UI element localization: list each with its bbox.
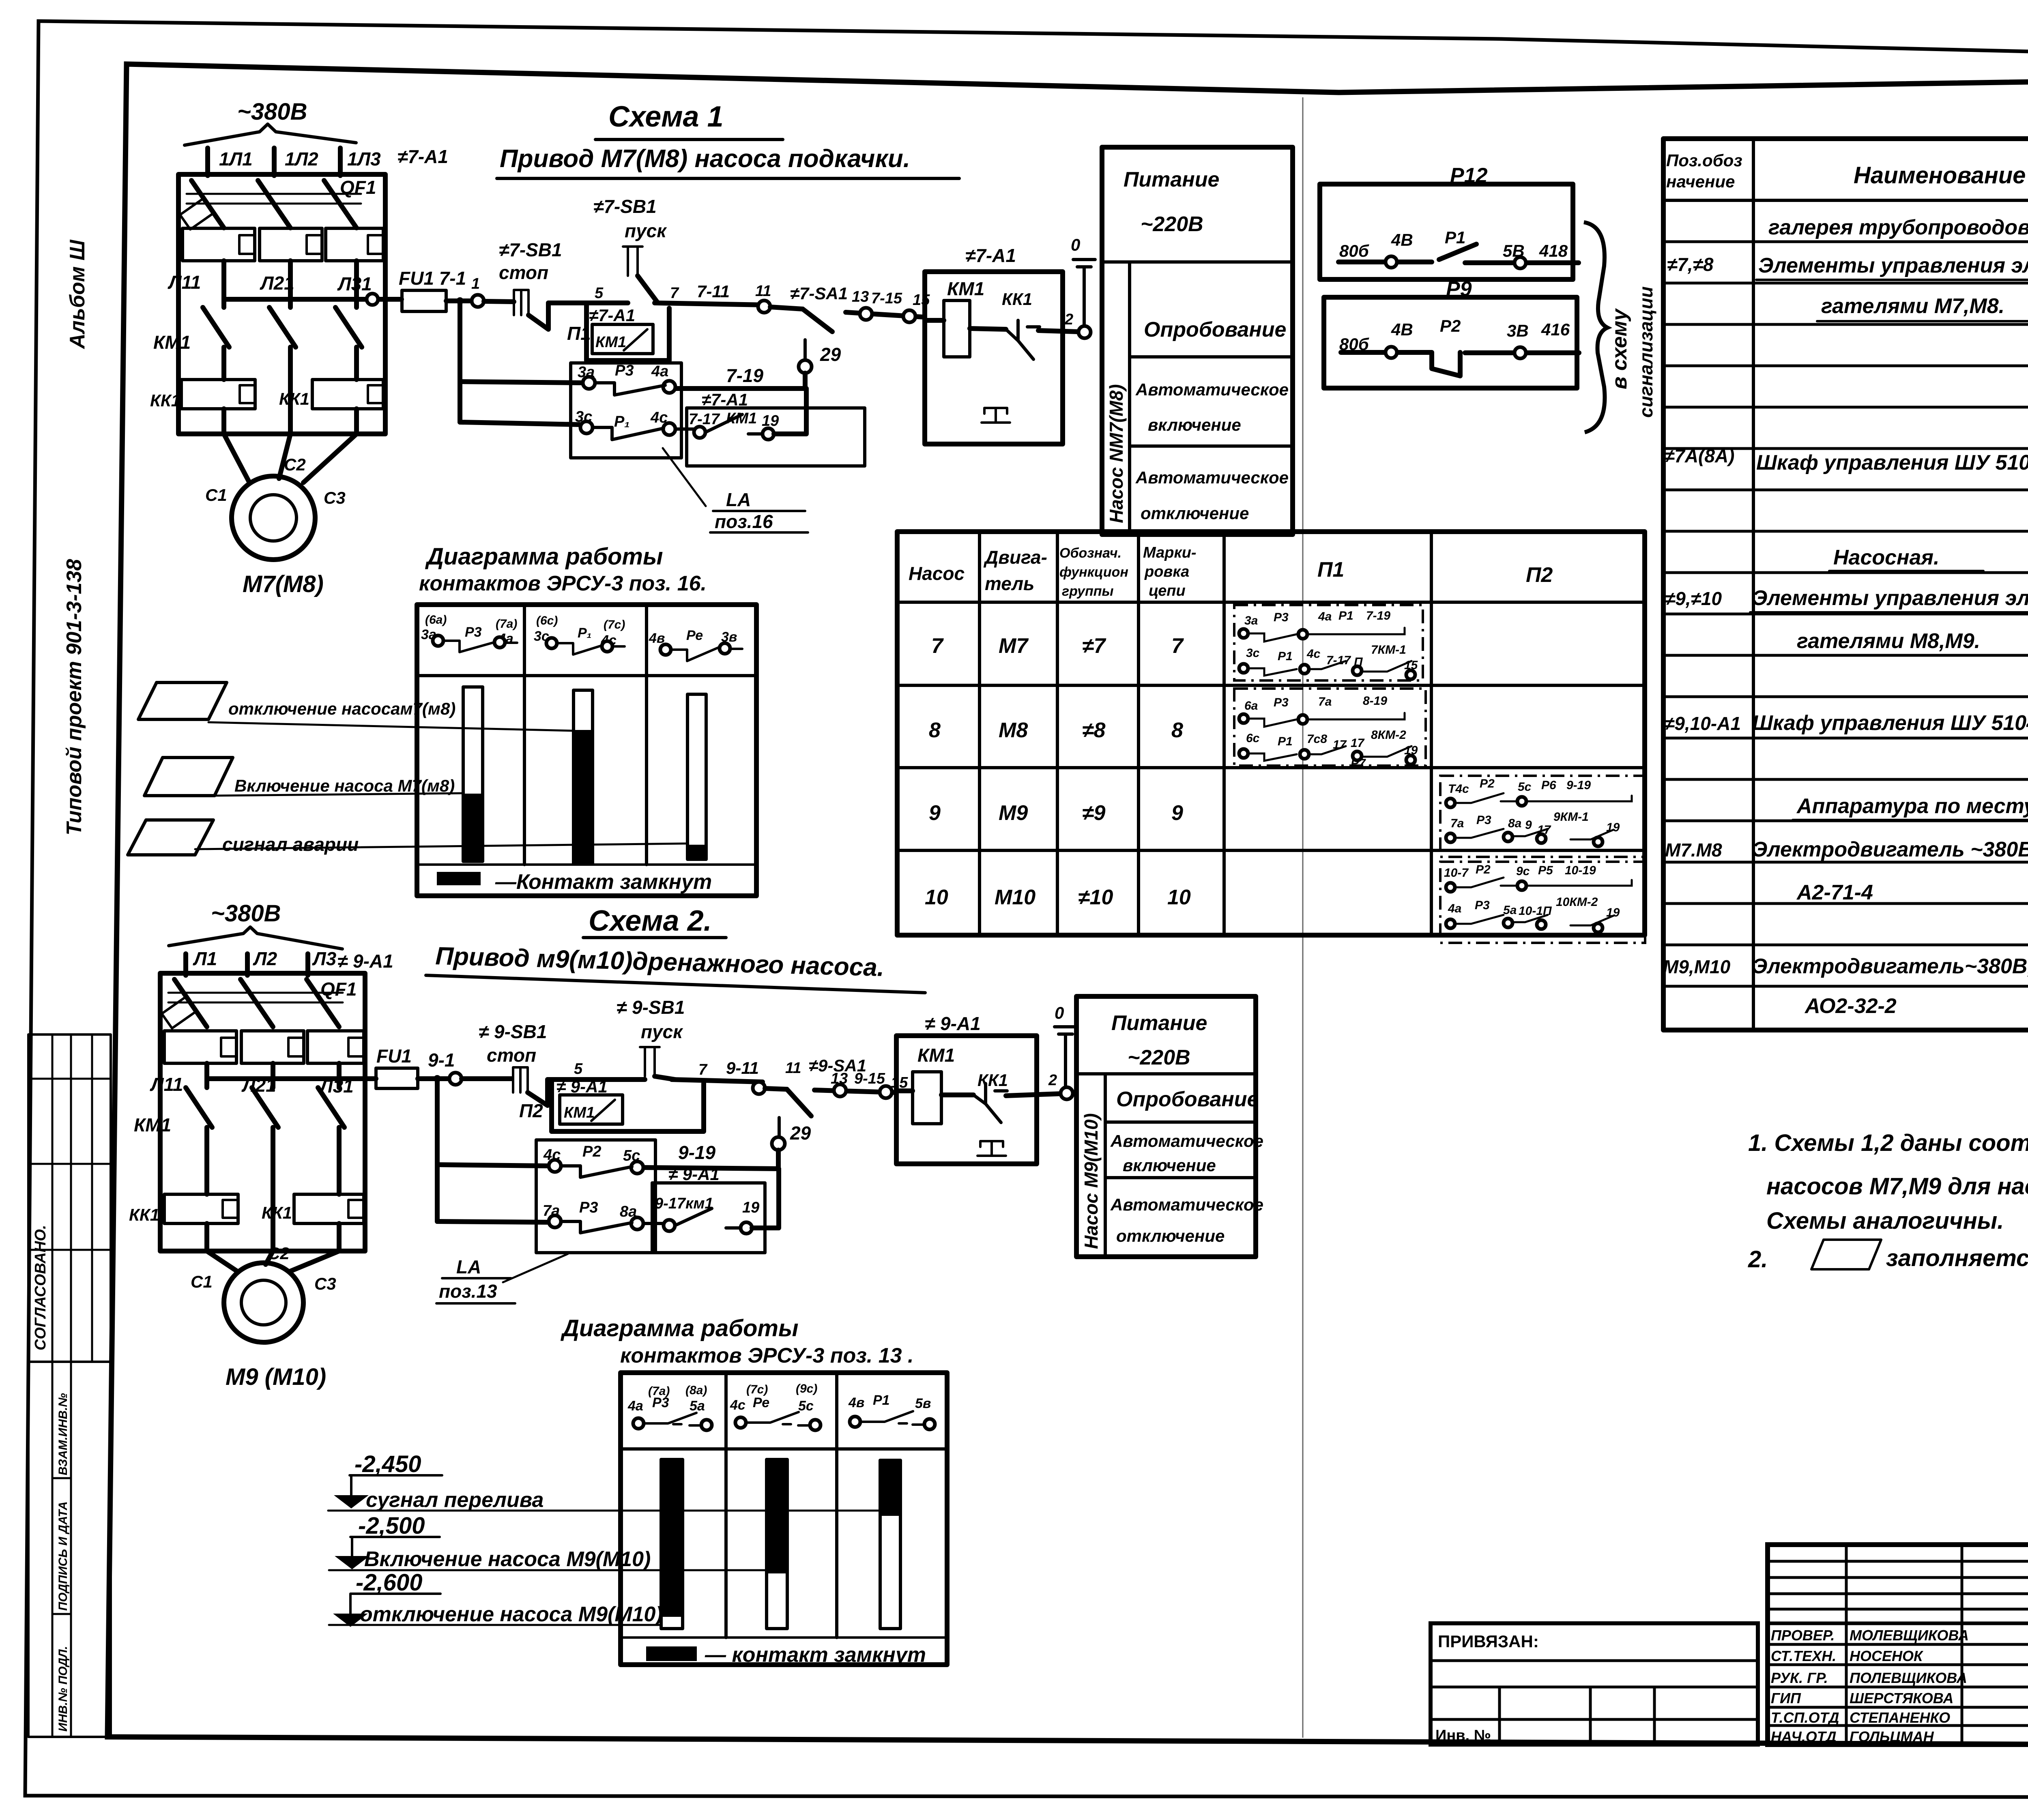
svg-text:9-1: 9-1 — [428, 1050, 455, 1071]
svg-text:Наименование: Наименование — [1854, 162, 2026, 189]
svg-text:≠7: ≠7 — [1082, 634, 1106, 658]
svg-text:—Контакт замкнут: —Контакт замкнут — [495, 870, 712, 894]
svg-text:7-17: 7-17 — [689, 411, 720, 428]
svg-text:~380В: ~380В — [237, 99, 307, 125]
svg-text:Т.СП.ОТД: Т.СП.ОТД — [1771, 1709, 1839, 1726]
svg-text:≠ 9-А1: ≠ 9-А1 — [668, 1165, 720, 1184]
svg-text:КК1: КК1 — [129, 1205, 159, 1224]
svg-text:пуск: пуск — [625, 220, 667, 241]
svg-text:9: 9 — [1171, 801, 1183, 825]
svg-text:С2: С2 — [284, 455, 306, 474]
svg-text:Р3: Р3 — [652, 1395, 669, 1410]
svg-text:начение: начение — [1666, 172, 1735, 191]
svg-text:Р1: Р1 — [1278, 735, 1293, 748]
svg-text:≠8: ≠8 — [1082, 719, 1106, 742]
svg-text:Шкаф управления ШУ 5104-03В 2к: Шкаф управления ШУ 5104-03В 2к — [1752, 711, 2028, 735]
svg-text:Р1: Р1 — [1445, 228, 1465, 247]
svg-text:контактов ЭРСУ-3 поз. 16.: контактов ЭРСУ-3 поз. 16. — [419, 572, 707, 595]
svg-text:416: 416 — [1541, 320, 1570, 339]
svg-text:Р1: Р1 — [1338, 609, 1353, 622]
svg-text:ШЕРСТЯКОВА: ШЕРСТЯКОВА — [1850, 1690, 1953, 1706]
svg-text:КК1: КК1 — [977, 1071, 1008, 1090]
svg-text:10-7: 10-7 — [1444, 866, 1469, 880]
svg-text:Включение насоса М9(М10): Включение насоса М9(М10) — [364, 1547, 651, 1571]
svg-text:пуск: пуск — [641, 1021, 683, 1042]
svg-text:9: 9 — [929, 801, 941, 825]
svg-text:Р2: Р2 — [582, 1143, 601, 1160]
svg-text:9: 9 — [1525, 818, 1532, 832]
svg-text:80б: 80б — [1339, 241, 1369, 260]
svg-text:функцион: функцион — [1059, 564, 1128, 580]
svg-text:5с: 5с — [623, 1147, 640, 1164]
svg-text:ГИП: ГИП — [1771, 1690, 1801, 1706]
svg-text:включение: включение — [1148, 415, 1241, 434]
svg-text:Автоматическое: Автоматическое — [1135, 380, 1289, 399]
svg-text:29: 29 — [820, 344, 841, 365]
svg-text:7: 7 — [670, 285, 679, 302]
svg-text:контактов ЭРСУ-3 поз. 13 .: контактов ЭРСУ-3 поз. 13 . — [620, 1344, 913, 1367]
svg-text:≠ 9-А1: ≠ 9-А1 — [337, 951, 393, 972]
svg-text:Шкаф управления ШУ 5102-23в 2А: Шкаф управления ШУ 5102-23в 2А — [1756, 451, 2028, 474]
svg-text:(7с): (7с) — [746, 1383, 768, 1396]
svg-text:29: 29 — [790, 1122, 811, 1144]
svg-text:8а: 8а — [1508, 817, 1521, 830]
svg-text:Автоматическое: Автоматическое — [1135, 468, 1289, 487]
svg-text:Р7: Р7 — [1351, 757, 1366, 770]
svg-text:сигнал аварии: сигнал аварии — [222, 834, 359, 855]
svg-text:М7(М8): М7(М8) — [243, 571, 324, 597]
svg-text:13: 13 — [852, 288, 869, 305]
svg-text:3с: 3с — [1246, 646, 1260, 660]
svg-text:0: 0 — [1055, 1003, 1064, 1022]
svg-text:5в: 5в — [915, 1396, 931, 1411]
svg-text:Л1: Л1 — [193, 948, 217, 969]
svg-text:Р6: Р6 — [1541, 779, 1556, 792]
svg-text:Марки-: Марки- — [1143, 544, 1197, 561]
svg-text:СТЕПАНЕНКО: СТЕПАНЕНКО — [1850, 1709, 1950, 1726]
svg-text:8КМ-2: 8КМ-2 — [1371, 728, 1406, 742]
svg-text:М8: М8 — [999, 719, 1028, 742]
svg-text:Р3: Р3 — [465, 625, 482, 640]
svg-text:9-19: 9-19 — [1566, 779, 1591, 792]
svg-text:Схемы аналогичны.: Схемы аналогичны. — [1766, 1208, 2004, 1234]
svg-text:П1: П1 — [1317, 558, 1344, 582]
svg-text:Электродвигатель ~380В, 22кВт: Электродвигатель ~380В, 22кВт — [1752, 838, 2028, 861]
svg-text:8-19: 8-19 — [1363, 694, 1387, 708]
svg-text:Опробование: Опробование — [1144, 318, 1286, 341]
svg-text:5а: 5а — [690, 1398, 705, 1414]
svg-text:4В: 4В — [1391, 230, 1413, 249]
svg-text:7КМ-1: 7КМ-1 — [1371, 643, 1406, 657]
svg-text:С1: С1 — [191, 1272, 213, 1291]
svg-text:8: 8 — [929, 719, 941, 742]
svg-text:ПОДПИСЬ И ДАТА: ПОДПИСЬ И ДАТА — [56, 1501, 70, 1611]
svg-text:П2: П2 — [519, 1100, 543, 1121]
svg-text:СОГЛАСОВАНО.: СОГЛАСОВАНО. — [32, 1225, 49, 1350]
svg-text:QF1: QF1 — [320, 979, 357, 1000]
svg-text:П1: П1 — [567, 323, 591, 344]
svg-text:Автоматическое: Автоматическое — [1110, 1195, 1263, 1214]
svg-text:Р2: Р2 — [1440, 316, 1461, 335]
svg-text:-2,450: -2,450 — [354, 1451, 421, 1477]
svg-text:4а: 4а — [651, 363, 668, 380]
svg-text:FU1 7-1: FU1 7-1 — [399, 268, 466, 289]
svg-text:≠9,≠10: ≠9,≠10 — [1665, 588, 1722, 609]
svg-text:≠7-SВ1: ≠7-SВ1 — [499, 239, 562, 260]
svg-text:Питание: Питание — [1124, 168, 1219, 191]
svg-text:≠7-А1: ≠7-А1 — [702, 390, 748, 409]
svg-text:5а: 5а — [1503, 904, 1517, 917]
svg-text:4с: 4с — [543, 1146, 561, 1163]
svg-text:КМ1: КМ1 — [917, 1045, 955, 1066]
svg-text:КК1: КК1 — [262, 1203, 292, 1222]
svg-text:7с8: 7с8 — [1307, 732, 1327, 746]
svg-text:НАЧ.ОТД: НАЧ.ОТД — [1771, 1728, 1837, 1745]
svg-text:7а: 7а — [1450, 817, 1464, 830]
svg-text:С3: С3 — [324, 488, 346, 507]
svg-text:Р3: Р3 — [1274, 696, 1289, 709]
svg-text:9-17км1: 9-17км1 — [655, 1195, 713, 1212]
svg-text:9-15: 9-15 — [854, 1070, 885, 1087]
svg-text:10КМ-2: 10КМ-2 — [1556, 895, 1598, 909]
svg-text:6с: 6с — [1246, 732, 1260, 745]
svg-text:Р1: Р1 — [873, 1393, 890, 1408]
svg-text:4в: 4в — [848, 1395, 864, 1410]
svg-text:4а: 4а — [627, 1398, 643, 1414]
svg-text:в схему: в схему — [1608, 308, 1631, 389]
svg-text:отключение: отключение — [1116, 1226, 1225, 1245]
svg-text:8а: 8а — [620, 1203, 637, 1220]
svg-text:7-19: 7-19 — [1366, 609, 1390, 622]
svg-text:Поз.обоз: Поз.обоз — [1666, 151, 1742, 170]
svg-text:3с: 3с — [575, 408, 592, 425]
svg-text:Р3: Р3 — [1475, 899, 1490, 912]
svg-text:2.: 2. — [1748, 1246, 1768, 1273]
svg-text:КМ1: КМ1 — [153, 332, 191, 353]
svg-text:КМ1: КМ1 — [564, 1104, 595, 1121]
svg-text:заполняется при привязке прое: заполняется при привязке проекта. — [1886, 1245, 2028, 1271]
svg-text:(7с): (7с) — [604, 618, 625, 631]
svg-text:НОСЕНОК: НОСЕНОК — [1850, 1648, 1924, 1664]
svg-text:поз.16: поз.16 — [715, 511, 773, 532]
svg-text:РУК. ГР.: РУК. ГР. — [1771, 1670, 1828, 1686]
svg-text:отключение насосам7(м8): отключение насосам7(м8) — [228, 699, 455, 718]
svg-text:сугнал перелива: сугнал перелива — [366, 1488, 544, 1512]
svg-text:~220В: ~220В — [1128, 1046, 1190, 1069]
svg-text:≠ 9-А1: ≠ 9-А1 — [556, 1077, 608, 1096]
svg-text:Обознач.: Обознач. — [1059, 545, 1121, 561]
svg-text:7а: 7а — [1318, 695, 1332, 708]
svg-text:≠7-SА1: ≠7-SА1 — [790, 284, 848, 303]
svg-text:М10: М10 — [995, 886, 1035, 909]
svg-text:Включение насоса М7(м8): Включение насоса М7(м8) — [234, 776, 455, 795]
svg-text:стоп: стоп — [487, 1045, 536, 1066]
svg-text:М9 (М10): М9 (М10) — [226, 1364, 326, 1390]
svg-text:418: 418 — [1539, 241, 1568, 260]
svg-text:17: 17 — [1351, 736, 1365, 750]
svg-text:Альбом Ш: Альбом Ш — [66, 239, 89, 350]
svg-text:ИНВ.№ ПОДЛ.: ИНВ.№ ПОДЛ. — [56, 1646, 70, 1732]
svg-text:6а: 6а — [1244, 699, 1258, 713]
svg-text:1: 1 — [471, 275, 480, 292]
svg-text:Типовой проект 901-3-138: Типовой проект 901-3-138 — [62, 559, 86, 835]
svg-text:ровка: ровка — [1144, 563, 1189, 580]
svg-text:включение: включение — [1123, 1156, 1216, 1175]
svg-text:Р3: Р3 — [579, 1199, 598, 1216]
svg-text:М7: М7 — [999, 634, 1029, 658]
svg-text:Р5: Р5 — [1538, 864, 1553, 877]
svg-text:стоп: стоп — [499, 262, 548, 283]
svg-text:КК1: КК1 — [1002, 290, 1032, 309]
svg-text:Схема 1: Схема 1 — [608, 101, 724, 133]
svg-text:1. Схемы 1,2 даны соответст: 1. Схемы 1,2 даны соответственно для — [1748, 1130, 2028, 1156]
svg-text:П2: П2 — [1526, 563, 1553, 587]
svg-text:Р3: Р3 — [1476, 813, 1491, 827]
svg-text:9КМ-1: 9КМ-1 — [1553, 810, 1589, 824]
svg-text:7-11: 7-11 — [697, 282, 730, 301]
svg-text:≠7-А1: ≠7-А1 — [965, 245, 1016, 266]
svg-text:~220В: ~220В — [1141, 212, 1203, 236]
svg-text:-2,500: -2,500 — [358, 1513, 425, 1539]
svg-text:ПРИВЯЗАН:: ПРИВЯЗАН: — [1438, 1632, 1539, 1651]
svg-text:Насос: Насос — [909, 563, 965, 584]
svg-text:КМ1: КМ1 — [595, 334, 626, 351]
svg-text:Элементы управления электродви: Элементы управления электродви- — [1752, 586, 2028, 610]
svg-text:С2: С2 — [268, 1244, 290, 1263]
svg-text:Привод М7(М8) насоса подкачки.: Привод М7(М8) насоса подкачки. — [500, 145, 910, 173]
svg-text:5: 5 — [595, 285, 604, 302]
svg-text:-2,600: -2,600 — [356, 1569, 422, 1596]
svg-text:FU1: FU1 — [376, 1045, 412, 1067]
svg-text:5с: 5с — [1518, 780, 1532, 794]
svg-text:0: 0 — [1071, 235, 1080, 254]
svg-text:Л11: Л11 — [150, 1074, 183, 1095]
svg-text:7-19: 7-19 — [726, 365, 763, 386]
svg-text:15: 15 — [913, 292, 930, 309]
svg-text:~380В: ~380В — [211, 900, 281, 927]
svg-text:Двига-: Двига- — [983, 547, 1047, 568]
svg-text:МОЛЕВЩИКОВА: МОЛЕВЩИКОВА — [1850, 1627, 1969, 1644]
svg-text:М9,М10: М9,М10 — [1663, 956, 1731, 977]
svg-text:Р1: Р1 — [1278, 650, 1293, 663]
svg-text:группы: группы — [1062, 584, 1114, 599]
svg-text:7: 7 — [931, 634, 944, 658]
svg-text:Ре: Ре — [753, 1395, 769, 1410]
svg-text:сигнализации: сигнализации — [1635, 286, 1656, 418]
svg-text:Автоматическое: Автоматическое — [1110, 1131, 1263, 1150]
svg-text:насосов М7,М9 для насосов М8,: насосов М7,М9 для насосов М8, М10 — [1766, 1173, 2028, 1200]
svg-text:19: 19 — [742, 1199, 759, 1216]
svg-text:поз.13: поз.13 — [439, 1281, 497, 1302]
svg-text:КК1: КК1 — [150, 391, 180, 410]
svg-text:3а: 3а — [578, 364, 595, 381]
svg-text:Л11: Л11 — [168, 272, 201, 293]
svg-text:4а: 4а — [1318, 610, 1332, 623]
svg-text:≠7-А1: ≠7-А1 — [589, 306, 635, 325]
svg-text:(9с): (9с) — [796, 1382, 817, 1395]
svg-text:АО2-32-2: АО2-32-2 — [1804, 994, 1897, 1018]
svg-text:СТ.ТЕХН.: СТ.ТЕХН. — [1771, 1648, 1836, 1664]
svg-text:LА: LА — [456, 1256, 481, 1277]
svg-text:отключение: отключение — [1141, 504, 1249, 523]
svg-text:Р₁: Р₁ — [614, 413, 630, 430]
svg-text:ПОЛЕВЩИКОВА: ПОЛЕВЩИКОВА — [1850, 1670, 1967, 1686]
svg-text:4с: 4с — [650, 409, 668, 426]
svg-text:гателями М7,М8.: гателями М7,М8. — [1821, 294, 2004, 318]
svg-text:(6с): (6с) — [536, 614, 558, 627]
svg-text:М7.М8: М7.М8 — [1665, 839, 1722, 861]
svg-text:Электродвигатель~380В, 4,0кВт.: Электродвигатель~380В, 4,0кВт. — [1752, 955, 2028, 978]
svg-text:Насос М9(М10): Насос М9(М10) — [1081, 1113, 1102, 1249]
svg-text:≠ 9-А1: ≠ 9-А1 — [925, 1013, 981, 1034]
svg-text:≠9,10-А1: ≠9,10-А1 — [1664, 713, 1741, 734]
svg-text:Ре: Ре — [686, 628, 703, 643]
svg-text:КМ1: КМ1 — [947, 278, 984, 299]
svg-text:4В: 4В — [1391, 320, 1413, 339]
svg-text:Р3: Р3 — [615, 362, 634, 379]
svg-text:Опробование: Опробование — [1116, 1088, 1259, 1111]
svg-text:Диаграмма работы: Диаграмма работы — [560, 1315, 799, 1341]
svg-text:5с: 5с — [798, 1398, 814, 1414]
svg-text:ВЗАМ.ИНВ.№: ВЗАМ.ИНВ.№ — [56, 1393, 70, 1475]
svg-text:10: 10 — [1167, 886, 1191, 909]
svg-text:Л3: Л3 — [312, 948, 337, 969]
svg-text:Р₁: Р₁ — [578, 625, 592, 641]
svg-text:≠ 9-SВ1: ≠ 9-SВ1 — [617, 997, 685, 1018]
svg-text:3а: 3а — [1244, 614, 1258, 627]
svg-text:отключение насоса М9(М10): отключение насоса М9(М10) — [360, 1603, 663, 1626]
svg-text:≠10: ≠10 — [1078, 886, 1113, 909]
svg-text:(7а): (7а) — [496, 617, 517, 631]
svg-text:Насос NМ7(М8): Насос NМ7(М8) — [1106, 384, 1127, 523]
svg-text:≠7-SВ1: ≠7-SВ1 — [593, 196, 657, 217]
svg-text:Р2: Р2 — [1480, 777, 1495, 790]
svg-text:Диаграмма работы: Диаграмма работы — [425, 543, 663, 570]
svg-text:≠7А(8А): ≠7А(8А) — [1664, 445, 1735, 466]
svg-text:11: 11 — [755, 283, 771, 300]
svg-text:Схема 2.: Схема 2. — [589, 905, 712, 937]
svg-text:10-19: 10-19 — [1565, 864, 1596, 877]
svg-text:Питание: Питание — [1111, 1011, 1207, 1035]
svg-text:7: 7 — [1171, 634, 1184, 658]
svg-text:тель: тель — [985, 573, 1034, 594]
svg-text:8: 8 — [1171, 719, 1183, 742]
svg-text:Аппаратура по месту.: Аппаратура по месту. — [1796, 794, 2028, 818]
svg-text:3В: 3В — [1507, 321, 1529, 340]
svg-text:2: 2 — [1064, 311, 1073, 328]
svg-text:КМ1: КМ1 — [134, 1114, 171, 1135]
svg-text:13: 13 — [831, 1070, 848, 1087]
svg-text:гателями М8,М9.: гателями М8,М9. — [1797, 629, 1980, 653]
svg-text:Элементы управления электродви: Элементы управления электродви- — [1758, 254, 2028, 277]
svg-text:9-19: 9-19 — [678, 1142, 715, 1163]
svg-text:7-17: 7-17 — [1326, 654, 1351, 667]
svg-text:1Л2: 1Л2 — [285, 148, 318, 170]
svg-text:4с: 4с — [730, 1397, 745, 1413]
svg-text:9с: 9с — [1516, 865, 1530, 878]
svg-text:7а: 7а — [543, 1202, 560, 1219]
svg-text:С3: С3 — [314, 1274, 336, 1293]
svg-text:цепи: цепи — [1149, 582, 1186, 599]
svg-text:4а: 4а — [1448, 902, 1461, 915]
svg-text:1Л3: 1Л3 — [347, 148, 381, 170]
svg-text:7: 7 — [698, 1061, 708, 1078]
svg-text:галерея трубопроводов.: галерея трубопроводов. — [1768, 216, 2028, 239]
svg-text:≠ 9-SВ1: ≠ 9-SВ1 — [479, 1021, 547, 1042]
svg-text:Насосная.: Насосная. — [1833, 546, 1939, 569]
svg-text:КК1: КК1 — [279, 389, 309, 408]
svg-text:ПРОВЕР.: ПРОВЕР. — [1771, 1627, 1835, 1644]
svg-text:9-11: 9-11 — [726, 1058, 759, 1077]
svg-text:≠7-А1: ≠7-А1 — [397, 146, 448, 167]
svg-text:ГОЛЬЦМАН: ГОЛЬЦМАН — [1850, 1728, 1934, 1745]
svg-text:Р2: Р2 — [1476, 863, 1491, 876]
svg-text:11: 11 — [785, 1060, 801, 1077]
svg-text:— контакт замкнут: — контакт замкнут — [705, 1643, 926, 1667]
svg-text:1Л1: 1Л1 — [219, 148, 253, 170]
svg-text:Л2: Л2 — [253, 948, 277, 969]
svg-text:10: 10 — [925, 886, 948, 909]
svg-text:(6а): (6а) — [425, 613, 447, 627]
svg-text:≠9: ≠9 — [1082, 801, 1106, 825]
svg-text:С1: С1 — [205, 485, 227, 504]
svg-text:7-15: 7-15 — [871, 290, 902, 307]
svg-text:Т4с: Т4с — [1448, 782, 1469, 796]
svg-text:LА: LА — [726, 489, 751, 510]
svg-text:Р3: Р3 — [1274, 611, 1289, 624]
svg-text:4с: 4с — [1306, 647, 1321, 661]
svg-text:А2-71-4: А2-71-4 — [1796, 881, 1873, 904]
svg-text:Инв. №: Инв. № — [1435, 1727, 1491, 1744]
svg-text:(8а): (8а) — [685, 1384, 707, 1397]
svg-text:5: 5 — [574, 1060, 583, 1077]
svg-text:М9: М9 — [999, 801, 1028, 825]
svg-text:2: 2 — [1048, 1072, 1057, 1089]
svg-text:≠7,≠8: ≠7,≠8 — [1667, 254, 1714, 275]
